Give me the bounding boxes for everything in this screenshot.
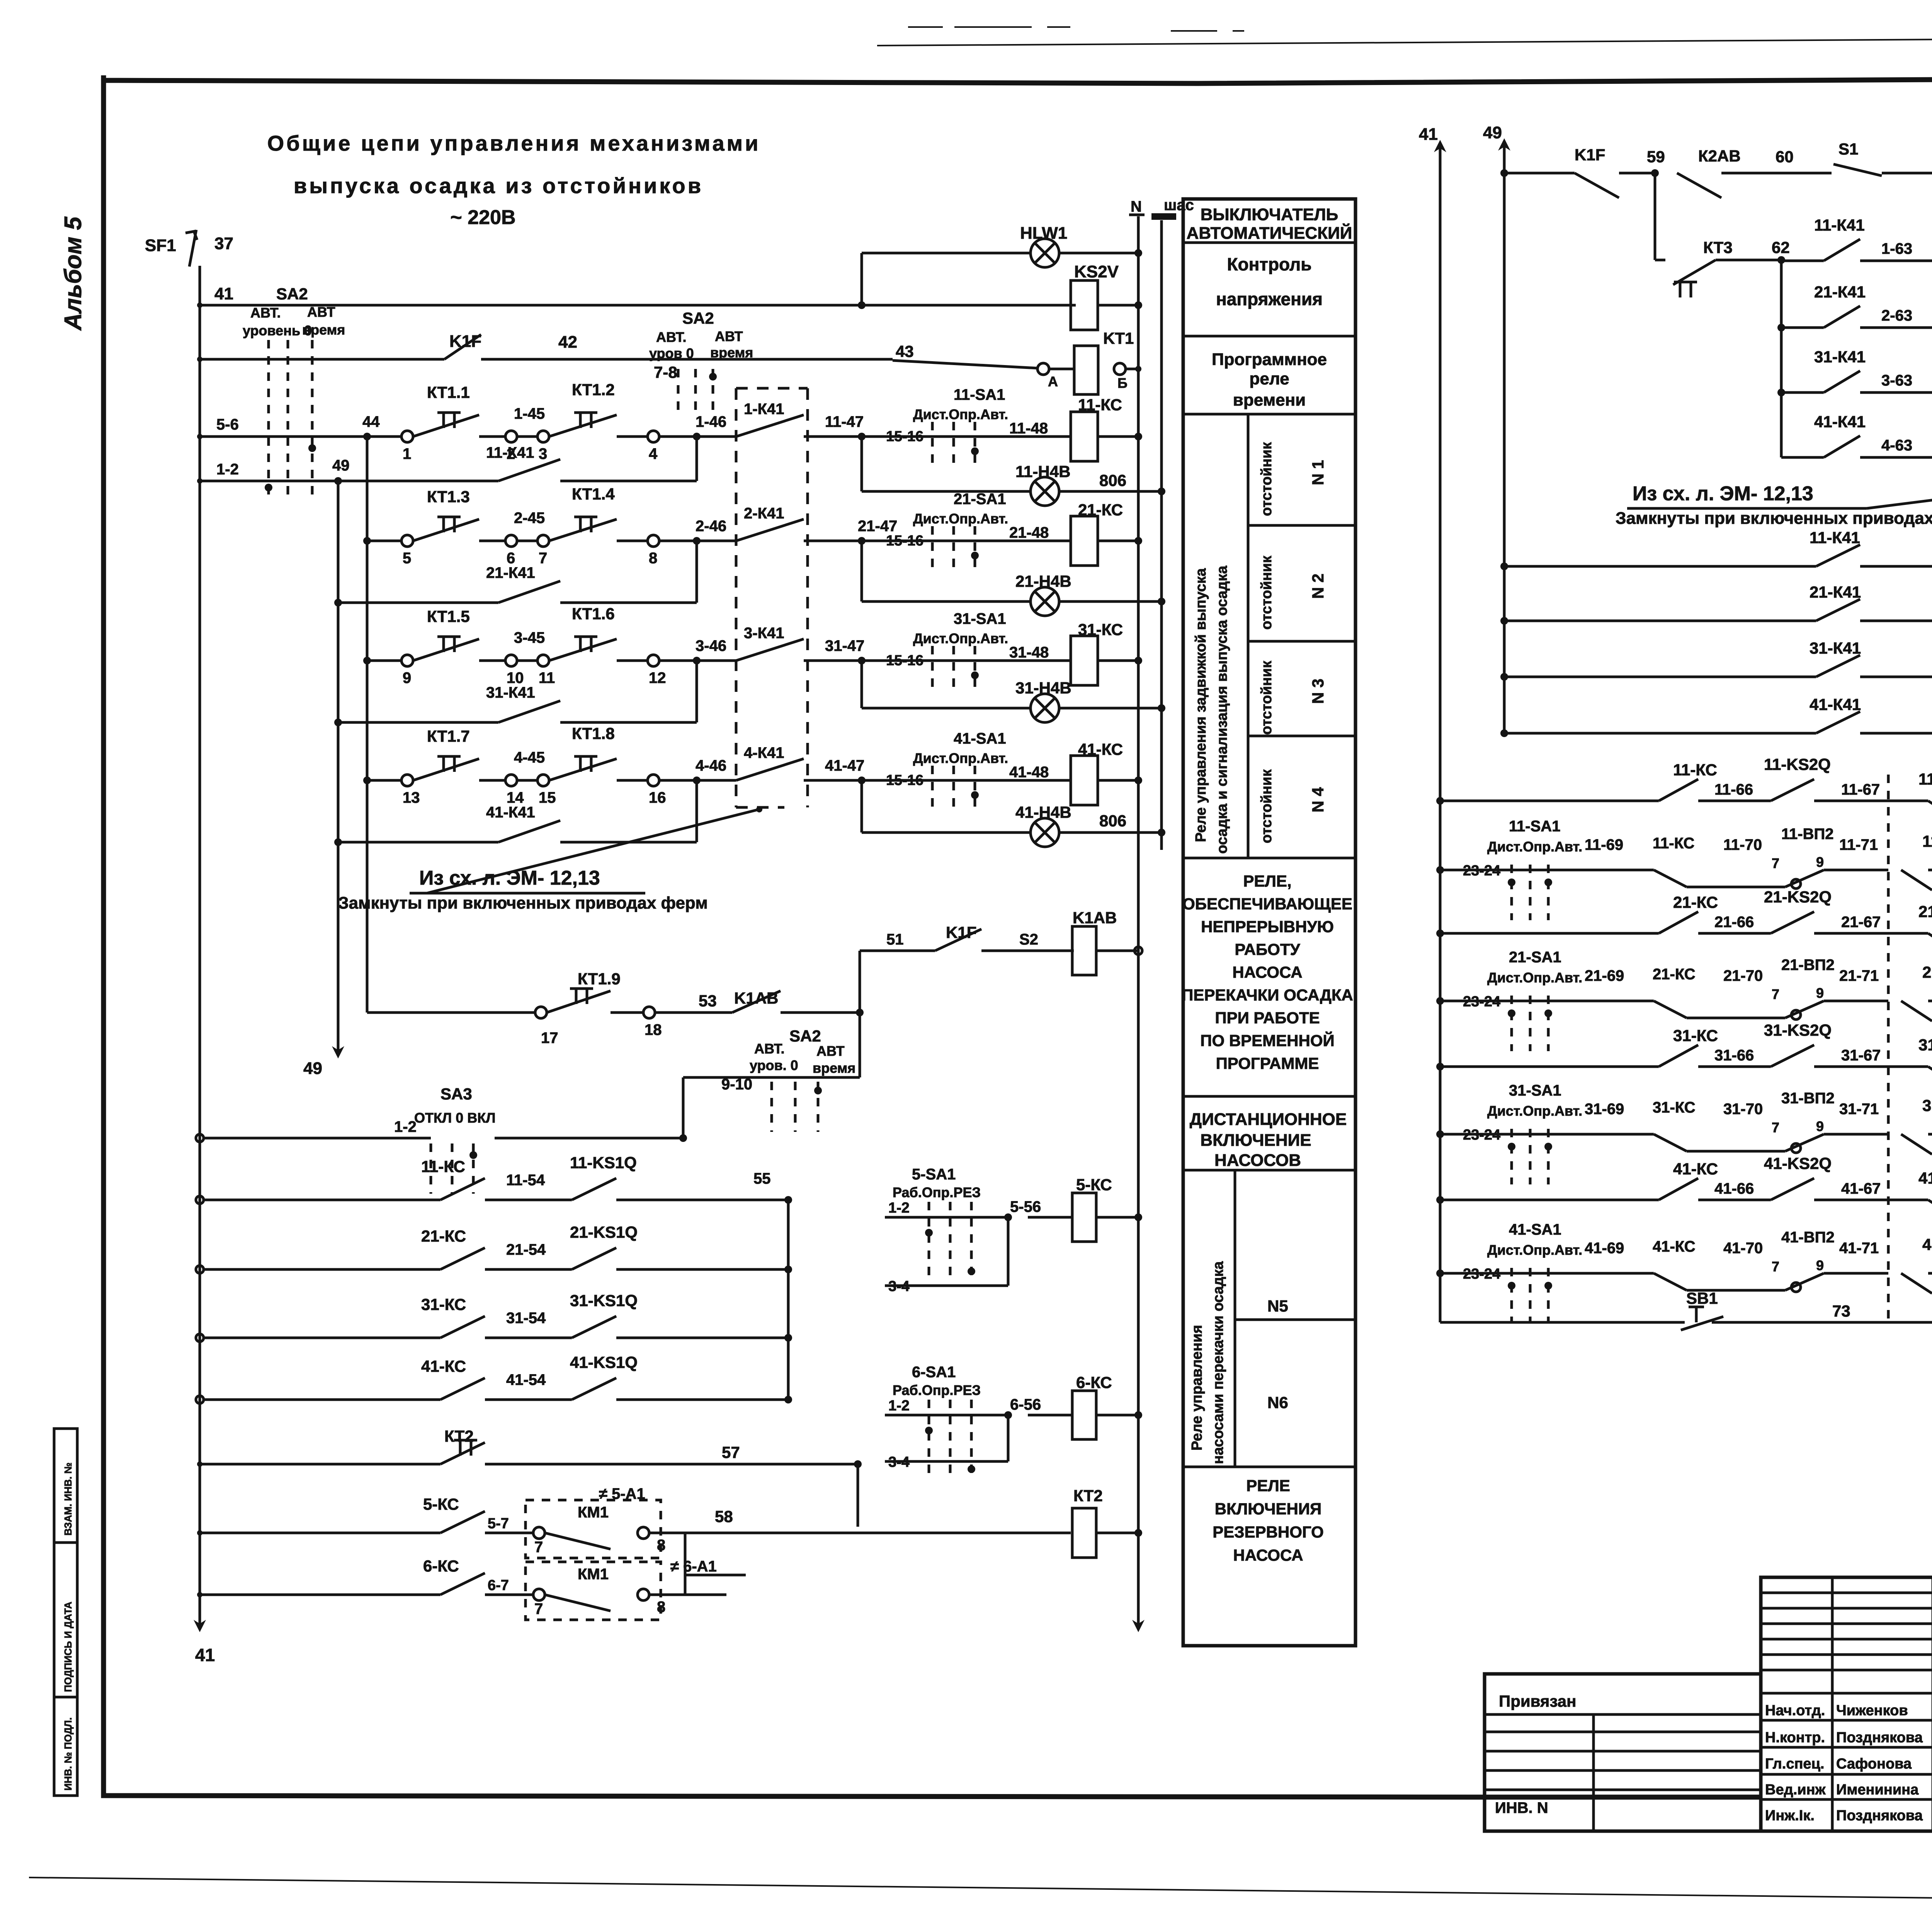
wire row 59-61 (1500, 169, 1508, 177)
svg-text:21-SA1: 21-SA1 (1509, 949, 1561, 966)
svg-text:11-КМ2: 11-КМ2 (1922, 832, 1932, 850)
svg-text:ПРИ РАБОТЕ: ПРИ РАБОТЕ (1215, 1009, 1320, 1027)
wire KS2V to N (1098, 304, 1138, 307)
svg-text:КТ1.3: КТ1.3 (427, 488, 470, 506)
svg-text:отстойник: отстойник (1259, 660, 1275, 735)
svg-text:11-К41: 11-К41 (1810, 528, 1860, 547)
svg-text:31-54: 31-54 (506, 1310, 546, 1327)
svg-text:31-ВП2: 31-ВП2 (1781, 1090, 1835, 1107)
svg-text:31-69: 31-69 (1585, 1101, 1624, 1118)
svg-text:11-КС: 11-КС (421, 1157, 465, 1176)
svg-text:11-КС: 11-КС (1653, 835, 1694, 852)
svg-text:5-56: 5-56 (1010, 1198, 1041, 1215)
wire row 44 from bus (200, 435, 265, 438)
svg-text:Привязан: Привязан (1499, 1692, 1576, 1710)
svg-text:Дист.Опр.Авт.: Дист.Опр.Авт. (913, 511, 1008, 527)
svg-text:3: 3 (539, 445, 547, 462)
wire HLW1 row (862, 252, 1031, 255)
svg-text:4: 4 (649, 445, 658, 462)
svg-text:АВТ: АВТ (816, 1043, 845, 1059)
svg-text:31-К41: 31-К41 (1810, 639, 1861, 657)
svg-text:31-SA1: 31-SA1 (1509, 1082, 1561, 1099)
wire 62 vertical (1780, 260, 1783, 457)
svg-text:Программное: Программное (1212, 350, 1327, 369)
svg-text:17: 17 (541, 1030, 558, 1047)
svg-text:41-КС: 41-КС (421, 1357, 466, 1375)
dashed box 6 KM1 (526, 1562, 661, 1620)
svg-text:напряжения: напряжения (1216, 289, 1323, 309)
svg-text:АВТОМАТИЧЕСКИЙ: АВТОМАТИЧЕСКИЙ (1187, 223, 1352, 243)
svg-text:31-KS2Q: 31-KS2Q (1764, 1021, 1832, 1039)
svg-text:11-71: 11-71 (1839, 836, 1878, 853)
svg-text:21-К41: 21-К41 (1814, 283, 1866, 301)
svg-text:Гл.спец.: Гл.спец. (1765, 1756, 1824, 1772)
wire row KT1.9 (367, 1011, 535, 1014)
svg-text:41-К41: 41-К41 (486, 804, 535, 821)
svg-text:31-КМ2: 31-КМ2 (1922, 1096, 1932, 1115)
svg-text:21-КС: 21-КС (421, 1227, 466, 1245)
svg-text:41-71: 41-71 (1839, 1240, 1879, 1257)
svg-text:ПЕРЕКАЧКИ ОСАДКА: ПЕРЕКАЧКИ ОСАДКА (1182, 986, 1353, 1004)
svg-text:5-7: 5-7 (488, 1516, 509, 1532)
svg-text:15-16: 15-16 (886, 428, 923, 445)
leader line to K41 box (427, 809, 759, 893)
svg-text:3-46: 3-46 (696, 637, 726, 654)
paper edge top (877, 36, 1932, 46)
svg-text:насосами перекачки осадка: насосами перекачки осадка (1210, 1261, 1226, 1464)
svg-text:КТ1.9: КТ1.9 (578, 970, 621, 988)
leader line right (1867, 494, 1932, 508)
svg-text:8: 8 (657, 1537, 665, 1554)
svg-text:1-2: 1-2 (216, 461, 239, 478)
svg-text:1-2: 1-2 (888, 1200, 910, 1216)
wire row 21-54 (196, 1266, 204, 1273)
svg-text:4-45: 4-45 (514, 749, 545, 766)
svg-text:KT1: KT1 (1103, 329, 1134, 347)
svg-text:11-KS2Q: 11-KS2Q (1764, 755, 1831, 773)
svg-text:НАСОСА: НАСОСА (1233, 1546, 1303, 1564)
svg-text:ВКЛЮЧЕНИЕ: ВКЛЮЧЕНИЕ (1200, 1131, 1311, 1150)
svg-text:5-6: 5-6 (216, 416, 239, 433)
svg-text:58: 58 (715, 1507, 733, 1526)
svg-text:21-КМ2: 21-КМ2 (1922, 963, 1932, 981)
svg-text:7-8: 7-8 (654, 363, 677, 381)
svg-text:Раб.Опр.РЕЗ: Раб.Опр.РЕЗ (893, 1382, 981, 1398)
svg-text:9: 9 (1816, 1118, 1824, 1134)
wire row 11-48 (862, 435, 1071, 438)
svg-text:5: 5 (403, 550, 411, 567)
svg-text:41-KS2Q: 41-KS2Q (1764, 1154, 1832, 1172)
dashed box 5 KM1 (526, 1500, 661, 1558)
svg-text:21-66: 21-66 (1714, 914, 1754, 931)
svg-text:Реле управления задвижкой в: Реле управления задвижкой выпуска (1193, 568, 1209, 842)
svg-text:КТ1.2: КТ1.2 (572, 381, 615, 399)
svg-text:Дист.Опр.Авт.: Дист.Опр.Авт. (1487, 1242, 1582, 1258)
svg-text:4-К41: 4-К41 (744, 744, 784, 761)
svg-text:11-70: 11-70 (1723, 836, 1762, 853)
svg-text:11-47: 11-47 (825, 413, 864, 430)
svg-text:60: 60 (1776, 148, 1794, 166)
svg-text:SA3: SA3 (440, 1085, 472, 1103)
svg-text:S1: S1 (1838, 140, 1858, 158)
wire row 57 (197, 1461, 202, 1467)
svg-text:11-КМ1: 11-КМ1 (1918, 770, 1932, 788)
svg-text:ПО ВРЕМЕННОЙ: ПО ВРЕМЕННОЙ (1200, 1031, 1334, 1050)
svg-text:K1AB: K1AB (1073, 909, 1117, 927)
wire row 5-7 (197, 1530, 202, 1536)
svg-text:11-SA1: 11-SA1 (954, 386, 1005, 403)
svg-text:7: 7 (534, 1600, 543, 1617)
wire row 11-54 (196, 1196, 204, 1204)
svg-text:Дист.Опр.Авт.: Дист.Опр.Авт. (913, 750, 1008, 766)
svg-text:Замкнуты при включенных привод: Замкнуты при включенных приводах ферм (338, 894, 708, 912)
svg-text:44: 44 (362, 413, 380, 430)
svg-text:9: 9 (1816, 1257, 1824, 1273)
svg-text:11: 11 (539, 669, 555, 686)
svg-text:15: 15 (539, 789, 556, 806)
svg-text:12: 12 (649, 669, 666, 686)
svg-text:2-46: 2-46 (696, 518, 726, 535)
title block annex privyazan (1485, 1674, 1761, 1831)
svg-text:КТ1.5: КТ1.5 (427, 607, 470, 625)
svg-text:К2АВ: К2АВ (1698, 147, 1741, 165)
svg-text:7: 7 (1772, 1120, 1779, 1135)
svg-text:41-SA1: 41-SA1 (1509, 1221, 1561, 1238)
dashed group KM box right (1887, 775, 1890, 1325)
svg-text:13: 13 (403, 789, 420, 806)
wire row SA3 (196, 1134, 204, 1142)
svg-text:3-К41: 3-К41 (744, 625, 784, 642)
svg-text:РЕЛЕ,: РЕЛЕ, (1243, 872, 1291, 890)
table legend column (1183, 199, 1355, 1646)
svg-text:АВТ.: АВТ. (754, 1041, 785, 1057)
svg-text:21-KS2Q: 21-KS2Q (1764, 888, 1832, 906)
svg-text:21-48: 21-48 (1009, 524, 1049, 541)
svg-text:21-К41: 21-К41 (486, 564, 535, 581)
svg-text:ИНВ. N: ИНВ. N (1495, 1799, 1548, 1816)
svg-text:РЕЛЕ: РЕЛЕ (1246, 1476, 1290, 1495)
svg-text:53: 53 (699, 992, 717, 1010)
svg-text:РЕЗЕРВНОГО: РЕЗЕРВНОГО (1213, 1523, 1324, 1541)
wire 806 row1 (1059, 490, 1162, 493)
svg-text:А: А (1048, 374, 1058, 389)
svg-text:31-47: 31-47 (825, 637, 864, 654)
svg-text:806: 806 (1099, 471, 1126, 489)
svg-text:11-ВП2: 11-ВП2 (1781, 826, 1834, 843)
svg-text:31-71: 31-71 (1839, 1101, 1879, 1118)
svg-text:3-45: 3-45 (514, 629, 545, 646)
svg-text:42: 42 (558, 333, 577, 352)
svg-text:21-К41: 21-К41 (1810, 583, 1861, 601)
wire row 31-48 (862, 659, 1071, 662)
bus shas vertical (1160, 220, 1163, 850)
svg-text:Позднякова: Позднякова (1836, 1808, 1923, 1824)
svg-text:41-ВП2: 41-ВП2 (1781, 1229, 1835, 1246)
svg-text:43: 43 (896, 342, 914, 360)
bus N vertical (1137, 216, 1140, 1626)
svg-text:31-70: 31-70 (1723, 1101, 1763, 1118)
svg-text:41: 41 (214, 284, 233, 303)
wire row 31-69 (1436, 1130, 1444, 1138)
svg-text:времени: времени (1233, 391, 1306, 409)
svg-text:АВТ: АВТ (307, 304, 335, 320)
svg-text:Общие цепи управления механ: Общие цепи управления механизмами (267, 131, 761, 155)
wire KT3 branch (1654, 173, 1656, 260)
wire 9-10 row (859, 951, 861, 1077)
svg-text:реле: реле (1249, 369, 1289, 388)
svg-text:SB1: SB1 (1686, 1289, 1718, 1307)
svg-text:уров. 0: уров. 0 (750, 1057, 798, 1073)
svg-text:Дист.Опр.Авт.: Дист.Опр.Авт. (913, 630, 1008, 646)
svg-text:21-КМ1: 21-КМ1 (1918, 902, 1932, 921)
svg-text:7: 7 (1772, 986, 1779, 1002)
svg-text:41-К41: 41-К41 (1814, 413, 1866, 431)
svg-text:31-SA1: 31-SA1 (954, 610, 1006, 627)
svg-text:41-К41: 41-К41 (1810, 695, 1861, 714)
svg-text:1-2: 1-2 (888, 1398, 910, 1414)
svg-text:ИНВ. № ПОДЛ.: ИНВ. № ПОДЛ. (62, 1718, 74, 1791)
wire ladder row 3-45 (367, 659, 401, 662)
svg-text:21-SA1: 21-SA1 (954, 491, 1006, 508)
wire row 41-66 (1436, 1196, 1444, 1204)
svg-text:6-SA1: 6-SA1 (912, 1364, 956, 1381)
wire row 41-69 (1436, 1269, 1444, 1277)
svg-text:41-66: 41-66 (1714, 1180, 1754, 1197)
svg-text:41-SA1: 41-SA1 (954, 730, 1006, 747)
svg-text:KS2V: KS2V (1074, 262, 1119, 281)
svg-text:~ 220В: ~ 220В (450, 206, 515, 229)
svg-text:Замкнуты при включенных привод: Замкнуты при включенных приводах ферм (1616, 509, 1932, 528)
svg-text:КМ1: КМ1 (578, 1504, 609, 1521)
svg-text:31-66: 31-66 (1714, 1047, 1754, 1064)
svg-text:N 4: N 4 (1309, 787, 1327, 812)
svg-text:N 3: N 3 (1309, 679, 1327, 704)
bus 41 vertical (199, 266, 201, 1626)
svg-text:Позднякова: Позднякова (1836, 1730, 1923, 1746)
svg-text:K1F: K1F (1575, 146, 1605, 164)
scan dash marks top (908, 27, 1244, 31)
svg-text:31-КС: 31-КС (1673, 1026, 1718, 1045)
svg-text:49: 49 (1483, 123, 1502, 142)
svg-text:Вед.инж: Вед.инж (1765, 1782, 1826, 1798)
svg-text:21-69: 21-69 (1585, 967, 1624, 984)
frame bottom at title block (1485, 1795, 1761, 1800)
svg-text:51: 51 (886, 931, 904, 948)
svg-text:11-69: 11-69 (1585, 836, 1623, 853)
svg-text:9: 9 (1816, 854, 1824, 870)
svg-text:7: 7 (1772, 855, 1779, 871)
svg-text:41-47: 41-47 (825, 757, 864, 774)
svg-text:Раб.Опр.РЕЗ: Раб.Опр.РЕЗ (893, 1184, 981, 1200)
svg-text:Н.контр.: Н.контр. (1765, 1730, 1825, 1746)
svg-text:Реле управления: Реле управления (1189, 1325, 1205, 1451)
svg-text:КМ1: КМ1 (578, 1566, 609, 1583)
svg-text:11-KS1Q: 11-KS1Q (570, 1154, 637, 1172)
svg-text:11-67: 11-67 (1841, 781, 1880, 798)
svg-text:5-КС: 5-КС (1076, 1176, 1112, 1194)
svg-text:41-КМ2: 41-КМ2 (1922, 1235, 1932, 1254)
svg-text:7: 7 (539, 550, 547, 567)
svg-text:31-КС: 31-КС (1653, 1099, 1696, 1116)
contact KM1 5 (545, 1533, 611, 1549)
svg-text:Дист.Опр.Авт.: Дист.Опр.Авт. (1487, 1103, 1582, 1119)
svg-text:3-63: 3-63 (1881, 372, 1912, 389)
svg-text:SF1: SF1 (145, 236, 176, 255)
wire ladder row 1-45 (367, 435, 401, 438)
svg-text:НЕПРЕРЫВНУЮ: НЕПРЕРЫВНУЮ (1201, 917, 1334, 936)
svg-text:8: 8 (649, 550, 657, 567)
title block outer (1761, 1577, 1932, 1831)
svg-text:41: 41 (1419, 125, 1438, 144)
svg-text:КТ3: КТ3 (1703, 238, 1733, 257)
svg-text:6-56: 6-56 (1010, 1396, 1041, 1413)
wire 42 row (200, 358, 444, 361)
wire ladder row 4-45 (367, 779, 401, 782)
svg-text:6-7: 6-7 (488, 1577, 509, 1594)
svg-text:уровень 0: уровень 0 (243, 323, 312, 338)
svg-text:41-KS1Q: 41-KS1Q (570, 1353, 638, 1371)
svg-text:Дист.Опр.Авт.: Дист.Опр.Авт. (1487, 839, 1582, 855)
svg-text:1-46: 1-46 (696, 413, 726, 430)
svg-text:7: 7 (534, 1539, 543, 1556)
wire row 21-48 (862, 540, 1071, 542)
svg-text:31-К41: 31-К41 (1814, 348, 1866, 366)
wire row 6-7 (197, 1592, 202, 1597)
svg-text:11-К41: 11-К41 (486, 444, 534, 461)
wire KM1 junction vertical (684, 1533, 687, 1595)
svg-text:ОБЕСПЕЧИВАЮЩЕЕ: ОБЕСПЕЧИВАЮЩЕЕ (1182, 895, 1352, 913)
svg-text:отстойник: отстойник (1259, 555, 1275, 630)
svg-text:НАСОСОВ: НАСОСОВ (1214, 1151, 1301, 1170)
svg-text:КТ1.7: КТ1.7 (427, 727, 470, 745)
svg-text:N6: N6 (1267, 1393, 1288, 1412)
svg-text:21-54: 21-54 (506, 1241, 546, 1258)
wire row 41-48 (862, 779, 1071, 782)
svg-text:1-63: 1-63 (1881, 240, 1912, 257)
svg-text:время: время (302, 322, 345, 338)
svg-text:11-66: 11-66 (1714, 781, 1753, 798)
svg-text:SA2: SA2 (789, 1027, 821, 1045)
svg-text:Из сх. л. ЭМ- 12,13: Из сх. л. ЭМ- 12,13 (419, 867, 600, 889)
svg-text:ВЗАМ. ИНВ. №: ВЗАМ. ИНВ. № (62, 1463, 74, 1536)
svg-text:41: 41 (195, 1645, 215, 1665)
contact KM1 6 (545, 1595, 611, 1611)
svg-text:КТ1.8: КТ1.8 (572, 724, 615, 742)
svg-text:59: 59 (1647, 148, 1665, 166)
svg-text:9: 9 (403, 669, 411, 686)
title block name grid (1831, 1577, 1834, 1831)
svg-text:SA2: SA2 (682, 309, 714, 327)
svg-text:11-54: 11-54 (506, 1172, 545, 1189)
wire row 31-54 (196, 1334, 204, 1342)
svg-text:1: 1 (403, 445, 411, 462)
svg-text:6-КС: 6-КС (423, 1557, 459, 1575)
svg-text:11-48: 11-48 (1009, 420, 1048, 437)
svg-text:2-63: 2-63 (1881, 307, 1912, 324)
svg-text:21-ВП2: 21-ВП2 (1781, 957, 1835, 974)
svg-text:4-46: 4-46 (696, 757, 726, 774)
svg-text:1-2: 1-2 (394, 1118, 417, 1135)
svg-text:16: 16 (649, 789, 666, 806)
wire ladder row 2-45 (367, 540, 401, 542)
svg-text:Б: Б (1117, 375, 1128, 391)
stamp box INV PODL (54, 1697, 77, 1796)
svg-text:осадка и сигнализация выпус: осадка и сигнализация выпуска осадка (1214, 566, 1230, 854)
svg-text:Из сх. л. ЭМ- 12,13: Из сх. л. ЭМ- 12,13 (1633, 483, 1813, 505)
svg-text:Сафонова: Сафонова (1836, 1756, 1912, 1772)
svg-text:21-47: 21-47 (858, 518, 897, 535)
svg-text:5-КС: 5-КС (423, 1495, 459, 1513)
svg-text:49: 49 (303, 1059, 322, 1078)
svg-text:АВТ.: АВТ. (656, 329, 687, 345)
svg-text:41-69: 41-69 (1585, 1240, 1624, 1257)
svg-text:2-К41: 2-К41 (744, 505, 784, 522)
svg-text:31-КМ1: 31-КМ1 (1918, 1036, 1932, 1054)
svg-text:N: N (1131, 198, 1142, 215)
svg-text:Нач.отд.: Нач.отд. (1765, 1702, 1825, 1719)
svg-text:21-70: 21-70 (1723, 967, 1763, 984)
svg-text:11-SA1: 11-SA1 (1509, 818, 1560, 835)
svg-text:Дист.Опр.Авт.: Дист.Опр.Авт. (1487, 970, 1582, 985)
svg-text:время: время (813, 1060, 855, 1076)
svg-text:11-К41: 11-К41 (1814, 216, 1865, 234)
svg-text:31-К41: 31-К41 (486, 684, 535, 701)
svg-text:11-КС: 11-КС (1673, 761, 1717, 779)
svg-text:15-16: 15-16 (886, 533, 923, 549)
bus 44 vertical (366, 437, 369, 1013)
svg-text:≠ 5-А1: ≠ 5-А1 (599, 1485, 645, 1502)
svg-text:9: 9 (1816, 985, 1824, 1001)
svg-text:31-KS1Q: 31-KS1Q (570, 1291, 638, 1310)
svg-text:7: 7 (1772, 1259, 1779, 1274)
svg-text:41-КС: 41-КС (1673, 1160, 1718, 1178)
svg-text:6-КС: 6-КС (1076, 1373, 1112, 1391)
svg-text:73: 73 (1832, 1302, 1850, 1320)
svg-text:РАБОТУ: РАБОТУ (1235, 940, 1300, 958)
svg-text:5-SA1: 5-SA1 (912, 1166, 956, 1183)
wire row 31-66 (1436, 1063, 1444, 1070)
paper edge bottom (29, 1877, 1932, 1900)
svg-text:Альбом 5: Альбом 5 (60, 216, 87, 331)
svg-text:N5: N5 (1267, 1297, 1288, 1315)
svg-text:8: 8 (657, 1599, 665, 1616)
svg-text:Именинина: Именинина (1836, 1782, 1919, 1798)
wire row 11-69 (1436, 866, 1444, 874)
svg-text:21-КС: 21-КС (1653, 966, 1696, 983)
svg-text:31-КС: 31-КС (421, 1295, 466, 1313)
svg-text:АВТ: АВТ (715, 328, 743, 344)
svg-text:АВТ.: АВТ. (250, 305, 281, 321)
svg-text:21-71: 21-71 (1839, 967, 1879, 984)
svg-text:КТ1.4: КТ1.4 (572, 485, 615, 503)
svg-text:выпуска осадка из отстойник: выпуска осадка из отстойников (294, 173, 703, 198)
wire row 58 to KT2 coil (726, 1532, 1071, 1534)
wire row 73 (1440, 1321, 1685, 1324)
svg-text:КТ1.6: КТ1.6 (572, 605, 615, 623)
svg-text:806: 806 (1099, 812, 1126, 830)
svg-text:≠ 6-А1: ≠ 6-А1 (670, 1558, 717, 1575)
svg-text:1-45: 1-45 (514, 405, 545, 422)
svg-text:18: 18 (645, 1021, 662, 1038)
svg-text:Инж.Iк.: Инж.Iк. (1765, 1808, 1815, 1824)
svg-text:КТ2: КТ2 (1073, 1487, 1103, 1505)
svg-text:КТ1.1: КТ1.1 (427, 383, 470, 401)
svg-text:S2: S2 (1019, 931, 1038, 948)
svg-text:Дист.Опр.Авт.: Дист.Опр.Авт. (913, 406, 1008, 422)
svg-text:37: 37 (214, 234, 233, 253)
svg-text:SA2: SA2 (276, 285, 308, 303)
svg-text:Контроль: Контроль (1227, 254, 1311, 274)
